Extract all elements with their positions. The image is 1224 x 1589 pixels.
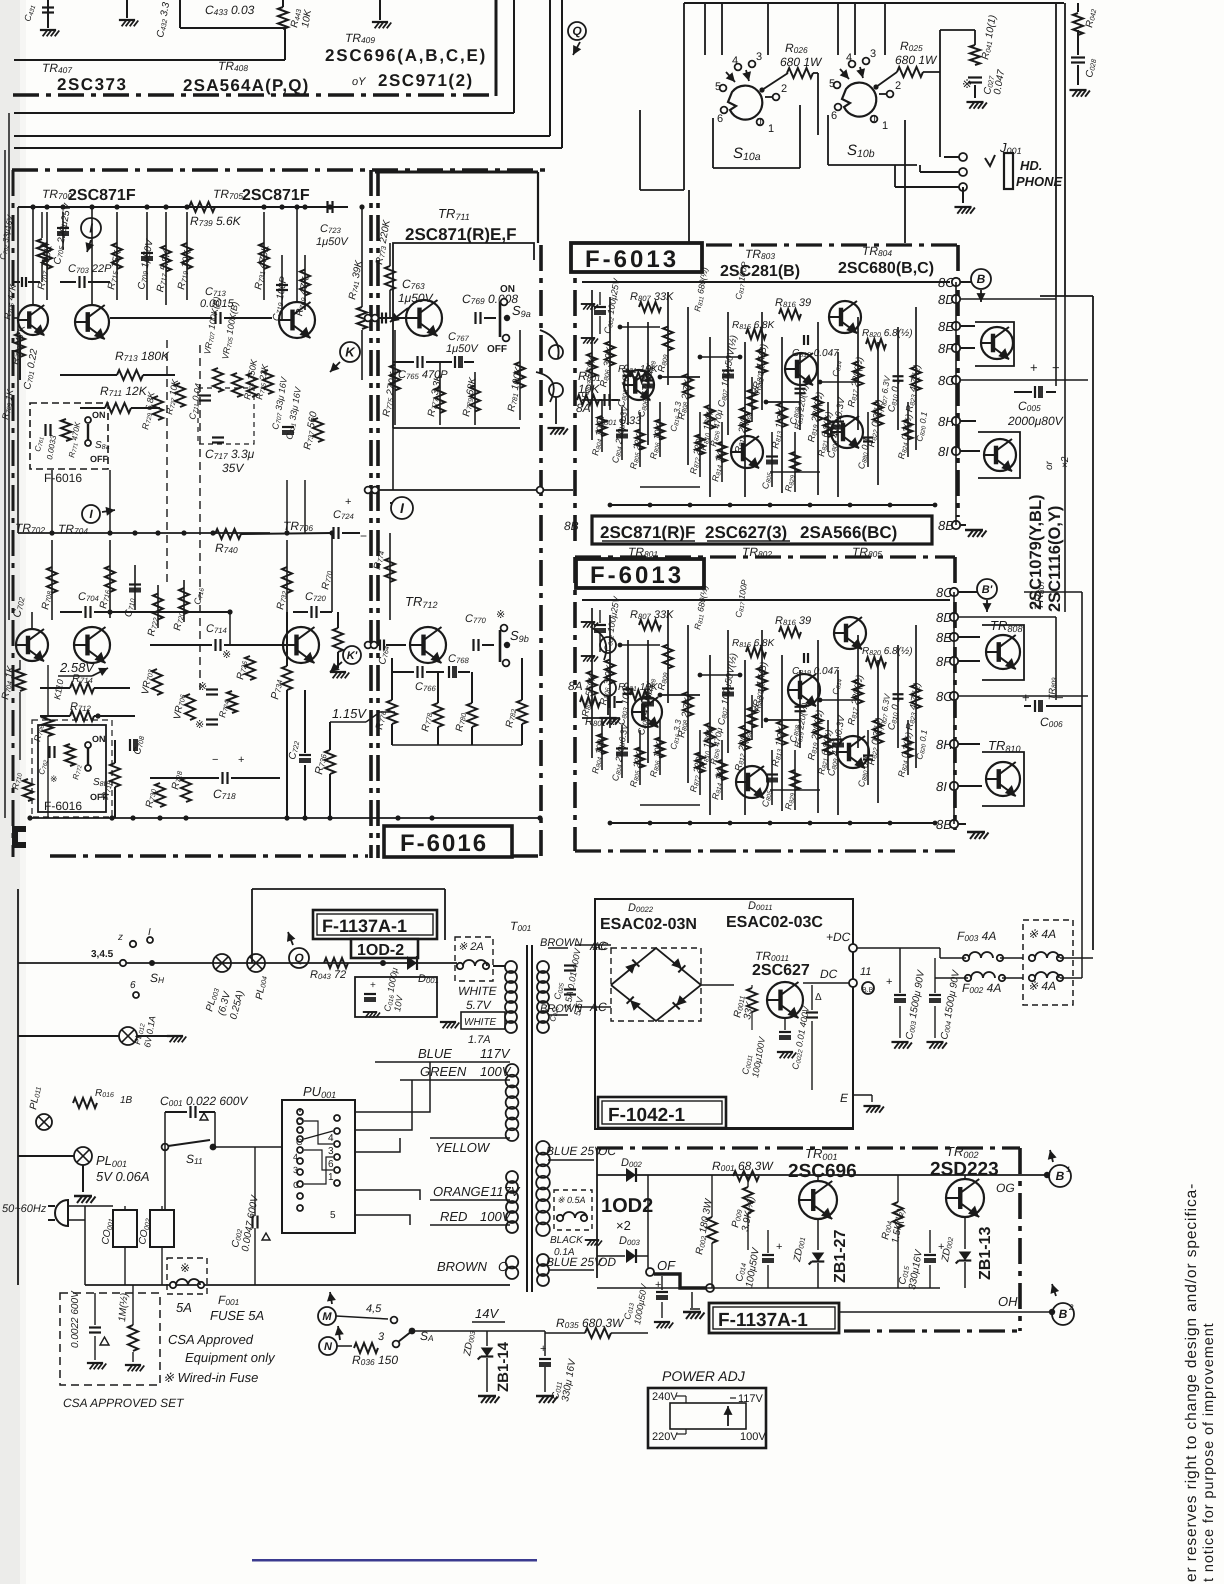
svg-text:6: 6 (717, 113, 723, 125)
svg-text:3: 3 (378, 1331, 385, 1343)
svg-text:−: − (1056, 690, 1064, 705)
svg-text:ON: ON (92, 410, 106, 420)
svg-text:3: 3 (328, 1146, 334, 1157)
svg-text:AC: AC (592, 941, 608, 953)
svg-text:2SC696: 2SC696 (788, 1161, 857, 1182)
svg-text:3,4.5: 3,4.5 (91, 949, 114, 960)
svg-text:Equipment only: Equipment only (185, 1350, 276, 1365)
svg-text:YELLOW: YELLOW (435, 1140, 491, 1155)
svg-text:BROWN: BROWN (540, 937, 582, 949)
svg-text:OH: OH (998, 1294, 1018, 1309)
svg-text:F-6013: F-6013 (585, 246, 679, 273)
svg-text:1OD2: 1OD2 (601, 1195, 653, 1217)
svg-text:N: N (324, 1341, 333, 1353)
svg-text:BROWN: BROWN (540, 1003, 582, 1015)
svg-text:ESAC02-03N: ESAC02-03N (600, 916, 697, 933)
svg-text:R036 150: R036 150 (352, 1353, 398, 1367)
svg-text:2SC696(A,B,C,E): 2SC696(A,B,C,E) (325, 46, 487, 65)
svg-text:2SC373: 2SC373 (57, 75, 127, 94)
svg-text:4,5: 4,5 (366, 1303, 382, 1315)
svg-text:+: + (540, 1343, 546, 1355)
svg-text:×2: ×2 (616, 1218, 631, 1233)
svg-text:2: 2 (1068, 1303, 1074, 1312)
svg-text:z: z (117, 932, 123, 943)
svg-text:2SC971(2): 2SC971(2) (378, 71, 474, 90)
svg-text:er reserves right to change de: er reserves right to change design and/o… (1183, 1183, 1200, 1582)
svg-text:3: 3 (756, 51, 762, 63)
svg-text:※: ※ (50, 774, 58, 784)
svg-text:※: ※ (496, 609, 505, 621)
svg-text:ORANGE: ORANGE (433, 1184, 490, 1199)
svg-text:C: C (293, 1180, 300, 1190)
svg-text:2SA566(BC): 2SA566(BC) (800, 523, 897, 542)
svg-text:OG: OG (996, 1181, 1015, 1195)
svg-text:ZB1-14: ZB1-14 (495, 1341, 512, 1392)
svg-text:1OD-2: 1OD-2 (357, 942, 404, 959)
svg-text:2SA564A(P,Q): 2SA564A(P,Q) (183, 76, 310, 95)
svg-text:2SC871F: 2SC871F (242, 187, 310, 204)
svg-text:※: ※ (180, 1261, 190, 1275)
svg-text:E: E (840, 1091, 849, 1105)
svg-text:117V: 117V (490, 1184, 521, 1199)
svg-text:O: O (498, 1259, 508, 1274)
svg-text:POWER ADJ: POWER ADJ (662, 1368, 746, 1384)
svg-text:0: 0 (870, 114, 876, 125)
svg-text:5: 5 (829, 78, 835, 90)
svg-text:5: 5 (330, 1210, 336, 1221)
svg-text:+: + (370, 980, 376, 991)
svg-text:※: ※ (962, 77, 972, 91)
svg-text:1: 1 (768, 123, 774, 135)
svg-text:※: ※ (195, 719, 204, 731)
svg-text:K': K' (347, 650, 358, 662)
svg-text:1μ50V: 1μ50V (446, 343, 479, 355)
svg-text:R739 5.6K: R739 5.6K (190, 214, 242, 228)
svg-text:2: 2 (781, 83, 787, 95)
svg-text:C433 0.03: C433 0.03 (205, 3, 255, 17)
svg-text:50~60Hz: 50~60Hz (2, 1203, 47, 1215)
svg-text:1: 1 (328, 1172, 334, 1183)
svg-text:BLACK: BLACK (550, 1235, 584, 1246)
svg-text:R807 33K: R807 33K (630, 609, 674, 621)
svg-text:R713 180K: R713 180K (115, 349, 170, 363)
svg-text:C: C (296, 1137, 303, 1147)
svg-text:1B: 1B (120, 1095, 133, 1106)
svg-text:+: + (238, 754, 244, 766)
svg-text:220V: 220V (652, 1431, 678, 1443)
svg-text:0: 0 (756, 117, 762, 128)
svg-text:2SC281(B): 2SC281(B) (720, 263, 800, 280)
svg-text:B.B: B.B (862, 987, 874, 994)
svg-text:B: B (977, 272, 986, 286)
svg-text:2SC871(R)F: 2SC871(R)F (600, 523, 695, 542)
svg-text:F-1042-1: F-1042-1 (608, 1105, 686, 1126)
svg-text:4: 4 (846, 52, 852, 64)
svg-text:RED: RED (440, 1209, 467, 1224)
svg-text:R711 12K: R711 12K (100, 384, 148, 398)
svg-text:6: 6 (130, 980, 136, 991)
svg-text:BLUE 25V: BLUE 25V (546, 1144, 603, 1158)
svg-text:+: + (1022, 690, 1030, 705)
svg-text:CSA Approved: CSA Approved (168, 1332, 254, 1347)
svg-text:CSA APPROVED SET: CSA APPROVED SET (63, 1396, 185, 1410)
svg-text:F-6013: F-6013 (590, 562, 684, 589)
svg-text:B: B (1056, 1169, 1065, 1183)
svg-text:+: + (886, 976, 892, 988)
svg-text:35V: 35V (222, 461, 244, 475)
svg-text:2: 2 (895, 80, 901, 92)
svg-text:100V: 100V (740, 1431, 766, 1443)
svg-text:8A: 8A (576, 401, 591, 415)
svg-text:DC: DC (820, 967, 838, 981)
svg-text:2000μ80V: 2000μ80V (1007, 414, 1064, 428)
svg-text:GREEN: GREEN (420, 1064, 467, 1079)
svg-text:F-6016: F-6016 (400, 830, 488, 857)
svg-text:F-6016: F-6016 (44, 799, 82, 813)
svg-text:2SC871(R)E,F: 2SC871(R)E,F (405, 225, 516, 244)
svg-text:2SC627(3): 2SC627(3) (705, 523, 787, 542)
svg-text:Δ: Δ (815, 992, 822, 1003)
svg-text:14V: 14V (475, 1306, 499, 1321)
svg-text:4: 4 (732, 55, 738, 67)
svg-text:ON: ON (500, 284, 515, 295)
svg-text:−: − (212, 754, 218, 766)
svg-text:100V: 100V (480, 1064, 512, 1079)
svg-text:+: + (1030, 360, 1038, 375)
svg-text:3: 3 (293, 1165, 298, 1175)
svg-text:1: 1 (882, 120, 888, 132)
svg-text:※ Wired-in Fuse: ※ Wired-in Fuse (163, 1370, 258, 1385)
svg-text:1μ50V: 1μ50V (316, 236, 349, 248)
svg-text:BROWN: BROWN (437, 1259, 487, 1274)
svg-text:C717 3.3μ: C717 3.3μ (205, 447, 255, 461)
svg-text:B: B (1059, 1307, 1068, 1321)
svg-text:B': B' (982, 584, 993, 596)
svg-text:R815 6.8K: R815 6.8K (732, 320, 776, 331)
svg-text:4: 4 (328, 1133, 334, 1144)
svg-text:240V: 240V (652, 1391, 678, 1403)
svg-text:−: − (360, 529, 367, 543)
svg-text:C: C (296, 1117, 303, 1127)
svg-text:2SC680(B,C): 2SC680(B,C) (838, 260, 934, 277)
svg-text:3: 3 (870, 48, 876, 60)
svg-text:R815 6.8K: R815 6.8K (732, 638, 776, 649)
svg-text:2SC871F: 2SC871F (68, 187, 136, 204)
svg-text:HD.: HD. (1020, 158, 1042, 173)
svg-text:1: 1 (1066, 1165, 1070, 1174)
svg-text:1.15V: 1.15V (332, 706, 367, 721)
svg-text:5A: 5A (176, 1300, 192, 1315)
svg-text:680 1W: 680 1W (780, 55, 823, 69)
svg-text:11: 11 (860, 966, 871, 978)
svg-text:OFF: OFF (90, 454, 108, 464)
svg-text:1.7A: 1.7A (468, 1034, 491, 1046)
svg-text:F-1137A-1: F-1137A-1 (718, 1310, 808, 1331)
svg-text:OC: OC (598, 1144, 616, 1158)
svg-text:F-1137A-1: F-1137A-1 (322, 916, 407, 936)
svg-text:5V 0.06A: 5V 0.06A (96, 1169, 150, 1184)
svg-text:or: or (1044, 460, 1055, 470)
svg-text:oY: oY (352, 76, 366, 88)
svg-text:117V: 117V (480, 1046, 511, 1061)
svg-text:※: ※ (222, 649, 231, 661)
svg-text:ON: ON (92, 734, 106, 744)
svg-text:※ 2A: ※ 2A (458, 941, 484, 953)
svg-text:WHITE: WHITE (458, 984, 498, 998)
svg-text:Q: Q (294, 951, 304, 965)
svg-text:M: M (322, 1311, 332, 1323)
svg-text:+: + (776, 1241, 782, 1253)
svg-text:※ 0.5A: ※ 0.5A (557, 1195, 586, 1205)
svg-text:2SC1116(O,Y): 2SC1116(O,Y) (1046, 506, 1064, 612)
svg-text:FUSE 5A: FUSE 5A (210, 1308, 264, 1323)
svg-text:4: 4 (293, 1152, 298, 1162)
svg-text:R807 33K: R807 33K (630, 291, 674, 303)
svg-text:BLUE 25V: BLUE 25V (546, 1255, 603, 1269)
svg-text:WHITE: WHITE (464, 1017, 497, 1028)
svg-text:5.7V: 5.7V (466, 998, 492, 1012)
svg-text:8I: 8I (936, 779, 947, 794)
svg-text:※: ※ (198, 681, 207, 693)
svg-text:K: K (345, 345, 356, 360)
svg-text:OD: OD (598, 1255, 616, 1269)
svg-text:8I: 8I (938, 444, 949, 459)
svg-text:6: 6 (831, 110, 837, 122)
svg-text:+: + (655, 1279, 661, 1291)
svg-text:※ 4A: ※ 4A (1028, 927, 1056, 941)
svg-text:C703 22P: C703 22P (68, 263, 112, 275)
svg-text:ZB1-27: ZB1-27 (832, 1230, 849, 1283)
svg-text:8B: 8B (564, 519, 579, 533)
svg-text:F-6016: F-6016 (44, 471, 82, 485)
svg-text:OFF: OFF (487, 344, 507, 355)
svg-text:ESAC02-03C: ESAC02-03C (726, 914, 823, 931)
svg-text:6: 6 (328, 1159, 334, 1170)
svg-text:5: 5 (715, 81, 721, 93)
svg-text:100V: 100V (480, 1209, 512, 1224)
svg-text:+: + (345, 496, 351, 508)
svg-text:×2: ×2 (1060, 456, 1071, 468)
svg-text:2SC627: 2SC627 (752, 962, 810, 979)
svg-text:Q: Q (572, 24, 582, 38)
svg-text:OF: OF (657, 1258, 676, 1273)
svg-text:ZB1-13: ZB1-13 (977, 1227, 994, 1280)
svg-text:+DC: +DC (826, 930, 851, 944)
svg-text:117V: 117V (738, 1393, 764, 1405)
svg-text:BLUE: BLUE (418, 1046, 452, 1061)
svg-text:t notice for purpose of improv: t notice for purpose of improvement (1201, 1322, 1217, 1582)
svg-text:0.0022 600V: 0.0022 600V (70, 1290, 81, 1348)
